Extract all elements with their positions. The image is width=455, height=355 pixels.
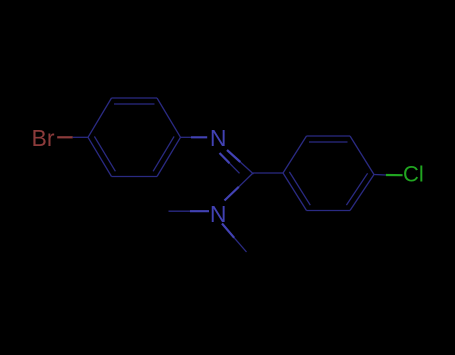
double bond N1=C2 second line bright half — [220, 153, 230, 163]
bond Br-ring red half — [57, 136, 72, 138]
bond ring1-N1 blue half — [191, 136, 207, 138]
benzene ring 2 edge 4 — [307, 210, 351, 212]
bond C2-N3 blue half — [225, 187, 239, 201]
bond ring2-Cl dark half — [374, 174, 386, 177]
bond Br-ring dark half — [73, 136, 88, 138]
bond N3-methylR dark half — [234, 238, 246, 252]
double bond N1=C2 main line dark half — [240, 162, 253, 174]
benzene ring 1 edge 0 — [88, 98, 112, 137]
bond N3-methylR blue half — [222, 224, 234, 238]
benzene ring 1 edge 2 — [157, 98, 181, 137]
benzene ring 1 edge 5 — [88, 137, 112, 176]
ring1 double bond inner line — [114, 103, 155, 105]
benzene ring 1 edge 4 — [112, 176, 158, 178]
ring2 double bond inner line — [309, 141, 348, 143]
svg-text:N: N — [210, 201, 227, 227]
benzene ring 2 edge 2 — [350, 136, 374, 175]
bond C2-ring2 — [253, 172, 283, 174]
benzene ring 1 edge 3 — [157, 137, 181, 176]
bond ring1-N1 dark half — [181, 136, 192, 138]
svg-text:N: N — [210, 125, 227, 151]
bond N3-methylL blue half — [190, 210, 209, 212]
benzene ring 1 edge 1 — [112, 97, 158, 99]
bond N3-methylL dark half — [169, 210, 191, 212]
svg-text:Cl: Cl — [403, 162, 424, 187]
svg-text:Br: Br — [32, 125, 55, 151]
ring2 double bond inner line — [289, 172, 310, 205]
benzene ring 2 edge 0 — [283, 136, 307, 173]
benzene ring 2 edge 5 — [283, 173, 307, 211]
double bond N1=C2 second line dark half — [230, 163, 240, 173]
double bond N1=C2 main line bright half — [227, 150, 240, 162]
benzene ring 2 edge 3 — [350, 175, 374, 211]
ring2 double bond inner line — [346, 173, 367, 205]
bond C2-N3 dark half — [239, 173, 253, 187]
ring1 double bond inner line — [94, 136, 115, 171]
bond ring2-Cl green half — [386, 174, 403, 176]
ring1 double bond inner line — [153, 136, 174, 171]
benzene ring 2 edge 1 — [307, 135, 351, 137]
